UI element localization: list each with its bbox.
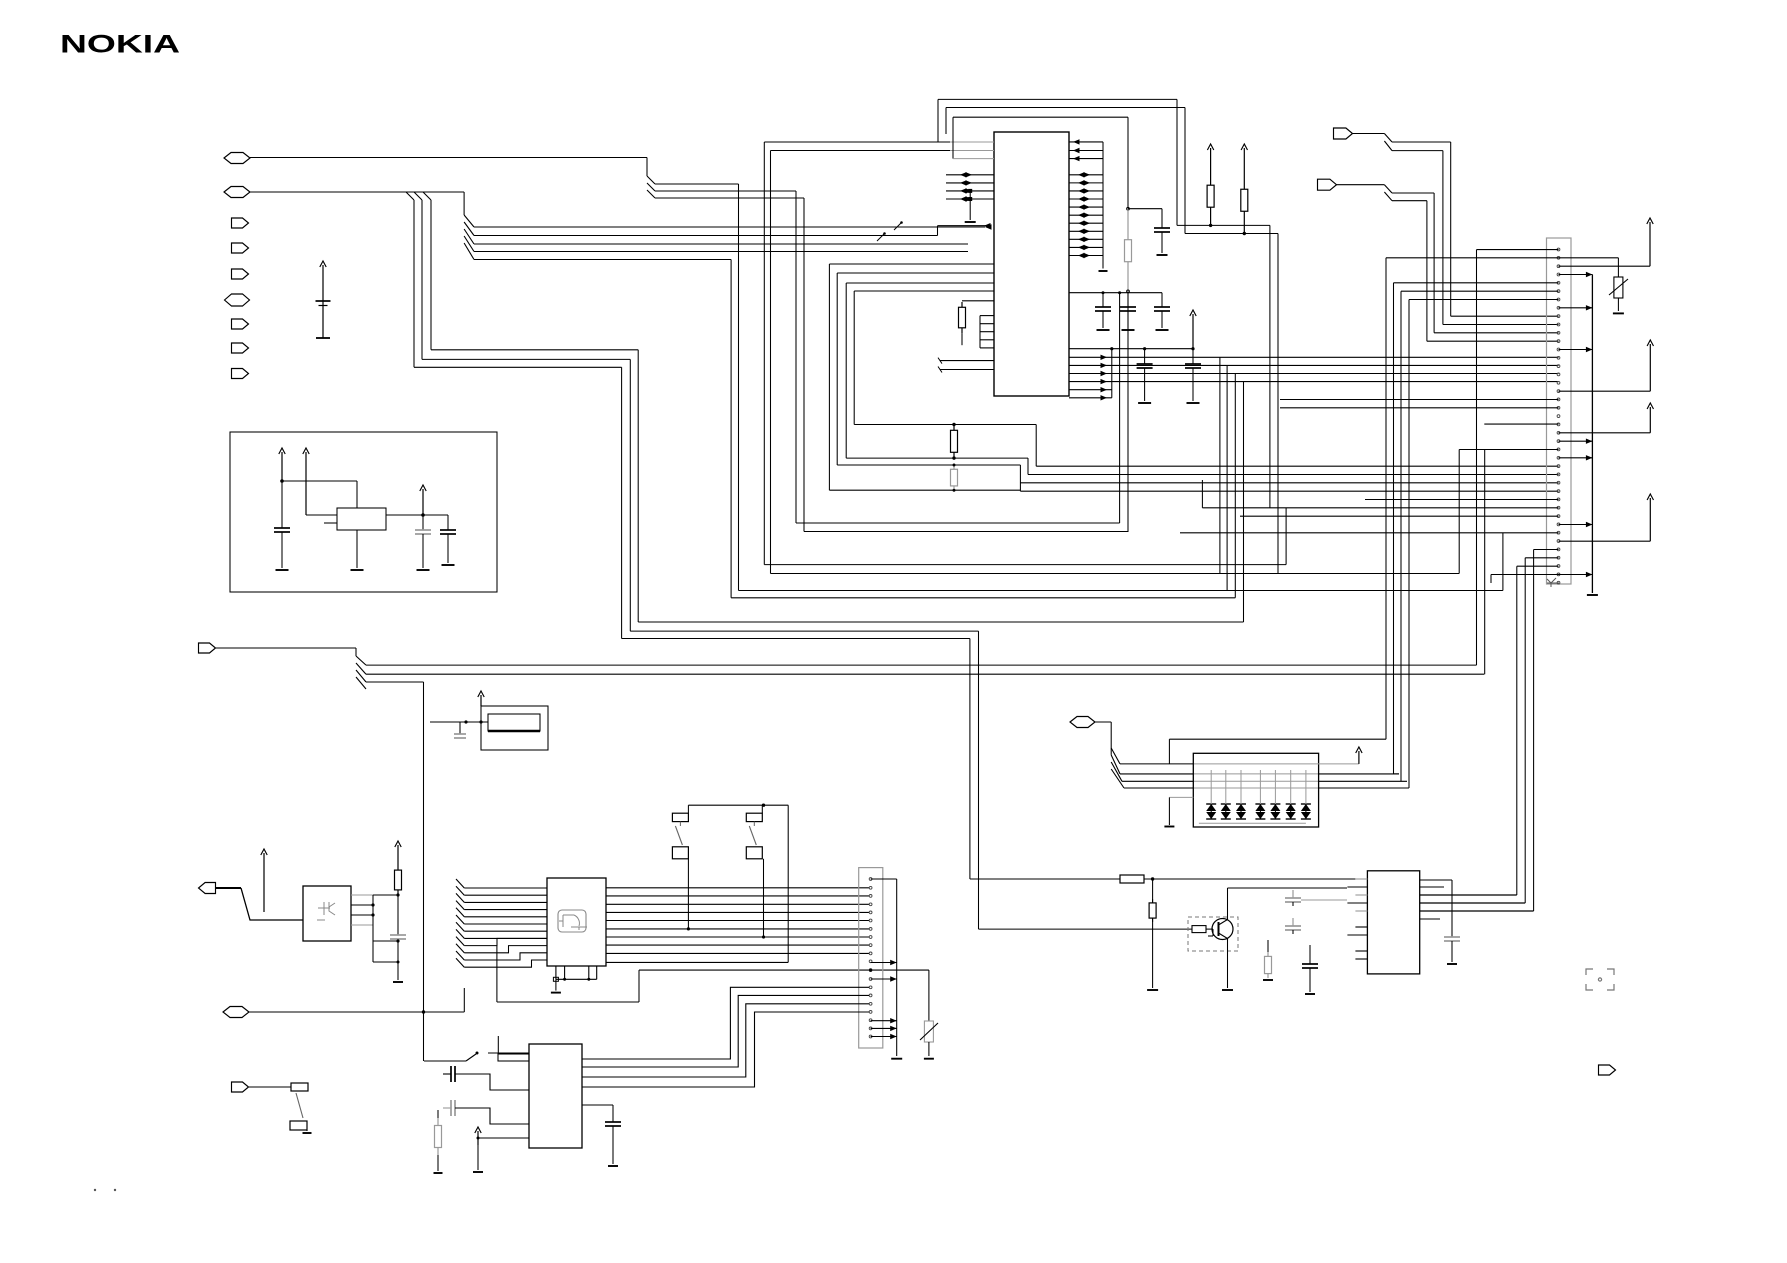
svg-text:NOKIA: NOKIA (60, 30, 180, 58)
